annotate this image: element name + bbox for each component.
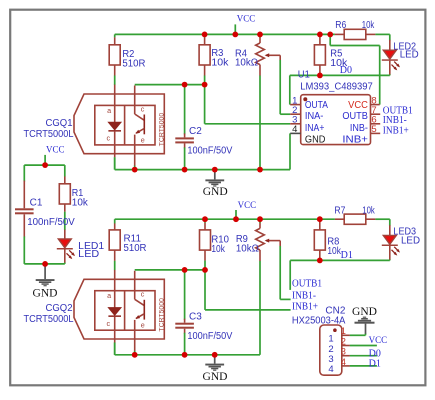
- svg-text:TCRT5000: TCRT5000: [159, 113, 166, 147]
- svg-text:VCC: VCC: [238, 200, 257, 211]
- svg-text:CGQ2: CGQ2: [46, 303, 73, 314]
- svg-text:OUTB: OUTB: [342, 111, 368, 122]
- svg-text:HX25003-4A: HX25003-4A: [292, 315, 346, 326]
- svg-text:10k: 10k: [330, 58, 348, 69]
- svg-text:10k: 10k: [362, 205, 375, 216]
- svg-text:C3: C3: [189, 312, 202, 323]
- svg-text:10kΩ: 10kΩ: [236, 244, 260, 255]
- svg-text:510R: 510R: [122, 59, 145, 70]
- svg-text:TCRT5000: TCRT5000: [159, 298, 166, 332]
- svg-text:a: a: [107, 106, 111, 115]
- svg-text:a: a: [107, 291, 111, 300]
- svg-text:INB1+: INB1+: [292, 302, 318, 313]
- svg-text:510R: 510R: [124, 243, 147, 254]
- svg-text:100nF/50V: 100nF/50V: [27, 217, 75, 228]
- svg-text:D1: D1: [369, 359, 381, 370]
- svg-text:C2: C2: [189, 126, 202, 137]
- svg-text:D1: D1: [341, 250, 353, 261]
- svg-text:OUTA: OUTA: [305, 100, 328, 111]
- svg-text:INA-: INA-: [305, 111, 324, 122]
- svg-text:GND: GND: [352, 305, 377, 318]
- svg-text:5: 5: [371, 124, 376, 135]
- svg-text:10k: 10k: [211, 58, 229, 69]
- svg-text:LM393_C489397: LM393_C489397: [300, 82, 373, 93]
- svg-text:10k: 10k: [72, 198, 89, 209]
- svg-text:INB1-: INB1-: [292, 291, 316, 302]
- svg-text:10k: 10k: [327, 246, 341, 257]
- svg-text:TCRT5000L: TCRT5000L: [24, 129, 74, 140]
- svg-text:INA+: INA+: [305, 123, 325, 134]
- svg-text:LED: LED: [400, 50, 419, 61]
- svg-text:4: 4: [341, 357, 346, 367]
- svg-text:GND: GND: [203, 370, 228, 383]
- svg-text:10k: 10k: [362, 20, 375, 31]
- svg-text:LED: LED: [78, 249, 99, 260]
- svg-text:INB+: INB+: [342, 135, 368, 146]
- svg-text:R7: R7: [334, 205, 345, 216]
- svg-text:OUTB1: OUTB1: [292, 279, 322, 290]
- svg-text:GND: GND: [203, 185, 228, 198]
- svg-text:CGQ1: CGQ1: [46, 118, 73, 129]
- svg-text:2: 2: [341, 336, 346, 346]
- svg-text:10kΩ: 10kΩ: [235, 57, 259, 68]
- svg-text:1: 1: [341, 326, 346, 336]
- svg-text:3: 3: [341, 347, 346, 357]
- svg-text:100nF/50V: 100nF/50V: [187, 146, 232, 157]
- svg-text:c: c: [141, 104, 145, 113]
- svg-text:VCC: VCC: [369, 335, 388, 346]
- svg-text:4: 4: [292, 124, 297, 135]
- svg-text:GND: GND: [33, 287, 58, 300]
- svg-text:GND: GND: [305, 135, 326, 146]
- svg-text:INB-: INB-: [350, 123, 368, 134]
- svg-text:c: c: [141, 290, 145, 299]
- svg-text:e: e: [141, 135, 145, 144]
- svg-text:10k: 10k: [211, 244, 225, 255]
- svg-text:c: c: [107, 319, 111, 328]
- svg-text:LED: LED: [401, 235, 420, 246]
- svg-text:e: e: [141, 321, 145, 330]
- svg-text:C1: C1: [30, 197, 43, 208]
- svg-text:100nF/50V: 100nF/50V: [187, 331, 232, 342]
- svg-text:R6: R6: [335, 20, 346, 31]
- svg-text:TCRT5000L: TCRT5000L: [24, 314, 74, 325]
- svg-text:INB1+: INB1+: [383, 125, 409, 136]
- svg-text:4: 4: [328, 364, 333, 375]
- svg-text:c: c: [107, 134, 111, 143]
- svg-text:VCC: VCC: [237, 13, 256, 24]
- svg-text:VCC: VCC: [46, 144, 65, 155]
- svg-text:VCC: VCC: [348, 100, 368, 111]
- svg-text:U1: U1: [298, 69, 310, 80]
